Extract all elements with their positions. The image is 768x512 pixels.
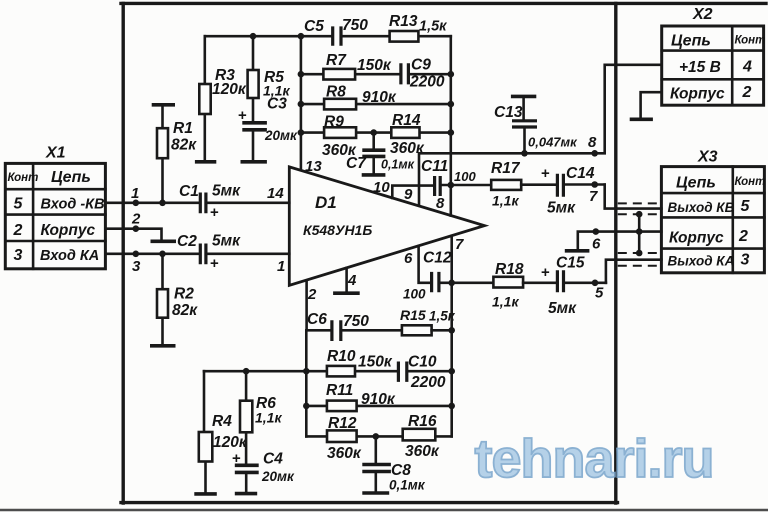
svg-text:R4: R4 — [212, 413, 232, 430]
svg-text:1,1к: 1,1к — [255, 410, 282, 426]
resistor R12 row wire — [306, 435, 451, 438]
watermark tehnari.ru — [474, 429, 713, 489]
node wire R4 R6 R10 row — [204, 370, 452, 373]
pin 2 wire — [307, 281, 331, 331]
capacitor C10 — [398, 354, 445, 392]
resistor R14 — [390, 112, 425, 157]
resistor R16 — [403, 413, 440, 460]
svg-text:C3: C3 — [267, 96, 287, 113]
svg-text:R7: R7 — [326, 52, 347, 69]
svg-text:1: 1 — [277, 258, 285, 275]
svg-text:14: 14 — [267, 185, 284, 202]
ground C8 bottom — [362, 491, 389, 495]
svg-text:2: 2 — [131, 211, 141, 228]
svg-text:C14: C14 — [566, 165, 595, 182]
svg-text:+15 В: +15 В — [679, 59, 721, 76]
svg-text:750: 750 — [342, 17, 368, 34]
svg-text:360к: 360к — [327, 445, 362, 462]
svg-text:X2: X2 — [692, 6, 713, 23]
resistor R8 row wire — [301, 103, 451, 106]
svg-text:2200: 2200 — [410, 374, 446, 391]
svg-text:13: 13 — [305, 158, 322, 175]
svg-text:Вход -КВ: Вход -КВ — [41, 197, 105, 213]
svg-text:Выход КВ: Выход КВ — [668, 200, 735, 215]
svg-text:4: 4 — [347, 272, 357, 289]
capacitor C12 — [403, 250, 493, 302]
resistor R1 — [157, 106, 168, 200]
resistor R2 — [157, 254, 168, 344]
svg-text:82к: 82к — [172, 302, 198, 319]
capacitor C11 — [421, 158, 491, 196]
resistor R12 — [327, 415, 362, 462]
wire input Корпус row — [105, 229, 161, 240]
svg-text:1,5к: 1,5к — [419, 19, 447, 35]
svg-text:0,047мк: 0,047мк — [528, 135, 578, 150]
right bottom bus pin 7 — [450, 236, 453, 437]
resistor R18 — [492, 261, 556, 310]
svg-text:1: 1 — [131, 185, 139, 202]
svg-text:+: + — [232, 450, 241, 467]
svg-text:C7: C7 — [346, 155, 367, 172]
svg-text:82к: 82к — [171, 137, 197, 154]
capacitor C4 — [235, 465, 259, 491]
ground R4 bottom — [194, 492, 217, 496]
svg-text:C13: C13 — [494, 104, 523, 121]
pin 10 wire — [392, 186, 433, 198]
svg-text:1,1к: 1,1к — [492, 294, 519, 310]
main circuit boundary right edge — [614, 3, 617, 503]
resistor R7 row wire — [301, 73, 451, 76]
svg-text:R9: R9 — [324, 114, 344, 131]
svg-text:R17: R17 — [491, 160, 521, 177]
svg-text:C8: C8 — [391, 462, 411, 479]
svg-text:20мк: 20мк — [264, 128, 298, 143]
wire input Вход-КВ row — [105, 202, 198, 205]
shielded cable КВ dashes — [618, 203, 660, 214]
svg-text:Корпус: Корпус — [670, 86, 725, 103]
svg-text:C2: C2 — [177, 233, 197, 250]
svg-text:2: 2 — [13, 222, 23, 239]
svg-text:tehnari.ru: tehnari.ru — [474, 429, 713, 489]
svg-text:6: 6 — [404, 250, 413, 267]
contact 5 node — [592, 280, 599, 287]
svg-text:+: + — [541, 165, 550, 182]
svg-text:R13: R13 — [389, 13, 418, 30]
svg-text:Цепь: Цепь — [676, 175, 716, 192]
svg-text:C12: C12 — [423, 250, 452, 267]
resistor R10 — [327, 348, 393, 376]
svg-text:+: + — [541, 264, 550, 281]
resistor R6 — [240, 371, 282, 463]
ground R2 bottom — [150, 344, 176, 348]
svg-text:C4: C4 — [263, 451, 283, 468]
svg-text:360к: 360к — [405, 443, 440, 460]
svg-text:X3: X3 — [697, 149, 718, 166]
svg-text:R10: R10 — [327, 348, 356, 365]
svg-text:150к: 150к — [357, 57, 392, 74]
svg-text:120к: 120к — [212, 81, 247, 98]
svg-text:Корпус: Корпус — [41, 222, 96, 239]
svg-text:Вход КА: Вход КА — [40, 248, 99, 264]
svg-text:C9: C9 — [411, 57, 431, 74]
svg-text:К548УН1Б: К548УН1Б — [303, 222, 372, 238]
capacitor C2 — [177, 233, 289, 273]
right feedback bus pin 8 — [449, 36, 452, 215]
svg-text:0,1мк: 0,1мк — [381, 158, 415, 172]
main circuit boundary top edge — [121, 2, 766, 5]
capacitor C5 — [304, 17, 368, 46]
resistor R7 — [323, 52, 391, 80]
junction C13 bottom — [521, 150, 528, 157]
svg-text:9: 9 — [404, 186, 413, 203]
svg-text:D1: D1 — [315, 193, 337, 212]
svg-text:10: 10 — [373, 179, 390, 196]
capacitor C3 — [242, 123, 267, 161]
wire output КВ to X3 — [605, 185, 662, 209]
svg-text:C10: C10 — [408, 354, 437, 371]
capacitor C8 — [362, 436, 391, 491]
contact 8 node — [591, 150, 598, 157]
wire input Вход КА row — [105, 253, 198, 256]
resistor R11 — [326, 382, 396, 411]
svg-text:R8: R8 — [326, 84, 346, 101]
svg-text:150к: 150к — [358, 354, 393, 371]
chassis bar output — [565, 249, 590, 253]
resistor R9 — [322, 114, 357, 160]
svg-text:+: + — [238, 107, 247, 124]
node wire pin13 feedback row C5 — [205, 35, 451, 38]
resistor R11 row wire — [306, 405, 451, 408]
capacitor C15 — [541, 255, 606, 318]
svg-text:5: 5 — [741, 198, 751, 215]
resistor R17 — [491, 160, 556, 209]
ground R1 top — [152, 103, 175, 107]
capacitor C1 — [179, 183, 289, 222]
svg-text:120к: 120к — [213, 434, 248, 451]
shielded cable КА dashes — [618, 253, 660, 266]
resistor R9 row wire — [301, 131, 451, 134]
svg-text:R1: R1 — [173, 120, 193, 137]
left feedback bus pin 13 — [300, 36, 303, 170]
svg-text:5: 5 — [595, 285, 604, 302]
svg-text:5мк: 5мк — [212, 233, 241, 250]
capacitor C6 — [307, 311, 402, 341]
svg-text:7: 7 — [589, 188, 598, 205]
svg-text:Выход КА: Выход КА — [668, 254, 735, 269]
svg-text:6: 6 — [592, 236, 601, 253]
svg-text:910к: 910к — [362, 89, 397, 106]
svg-text:5мк: 5мк — [547, 200, 576, 217]
svg-text:8: 8 — [588, 134, 597, 151]
op-amp D1 К548УН1Б — [289, 167, 484, 286]
svg-text:100: 100 — [454, 169, 476, 184]
svg-text:2: 2 — [742, 84, 752, 101]
svg-text:R2: R2 — [174, 286, 194, 303]
svg-text:0,1мк: 0,1мк — [389, 478, 426, 493]
svg-text:750: 750 — [343, 313, 369, 330]
svg-text:R18: R18 — [495, 261, 524, 278]
svg-text:5мк: 5мк — [212, 183, 241, 200]
contact 7 node — [591, 181, 598, 188]
capacitor C13 — [494, 96, 578, 153]
resistor R4 — [199, 371, 213, 491]
svg-text:R14: R14 — [392, 112, 421, 129]
pin 4 stub — [345, 268, 348, 291]
svg-text:20мк: 20мк — [261, 469, 295, 484]
svg-text:1,1к: 1,1к — [492, 193, 519, 209]
capacitor C7 — [362, 133, 385, 173]
svg-text:5: 5 — [14, 196, 24, 213]
resistor R3 — [199, 36, 210, 161]
svg-text:2: 2 — [307, 286, 317, 303]
shield tie vertical — [638, 214, 641, 253]
svg-text:3: 3 — [132, 258, 141, 275]
svg-text:Цепь: Цепь — [51, 169, 91, 186]
svg-text:+: + — [210, 204, 219, 221]
junction C8 top — [373, 433, 380, 440]
svg-text:Корпус: Корпус — [669, 230, 724, 247]
image bottom border — [0, 509, 768, 512]
svg-text:2200: 2200 — [409, 74, 445, 91]
junction R1 bottom — [159, 200, 166, 207]
junction R5 top — [250, 33, 257, 40]
svg-text:C11: C11 — [421, 158, 448, 175]
ground C3 bottom — [241, 160, 267, 164]
main circuit boundary bottom edge — [121, 501, 618, 504]
ground C7 bottom — [362, 173, 386, 177]
pin 8 rail wire — [419, 65, 662, 206]
svg-text:R12: R12 — [328, 415, 357, 432]
left bottom bus — [305, 330, 308, 436]
svg-text:3: 3 — [14, 247, 23, 264]
connector table X1 — [5, 145, 105, 269]
svg-text:C1: C1 — [179, 183, 199, 200]
junction C7 top — [370, 129, 377, 136]
svg-text:910к: 910к — [361, 391, 396, 408]
chassis bar input — [151, 240, 177, 244]
svg-text:C6: C6 — [307, 311, 327, 328]
ground X2 — [630, 92, 662, 119]
svg-text:Конт: Конт — [8, 172, 39, 184]
resistor R8 — [324, 84, 397, 110]
svg-text:100: 100 — [403, 287, 426, 302]
resistor R5 — [248, 36, 291, 121]
contact 6 node — [593, 228, 600, 235]
svg-text:R15: R15 — [400, 307, 426, 323]
node 2 — [133, 225, 140, 232]
capacitor C14 — [541, 165, 605, 217]
svg-text:R11: R11 — [326, 382, 353, 399]
wire output КА to X3 — [606, 260, 662, 283]
pin 6 wire — [419, 246, 430, 283]
connector table X3 — [661, 149, 765, 273]
wire Корпус output row — [578, 232, 662, 249]
svg-text:Конт: Конт — [735, 35, 766, 47]
svg-text:Конт: Конт — [735, 176, 766, 188]
node 1 — [133, 200, 140, 207]
svg-text:+: + — [210, 255, 219, 272]
svg-text:8: 8 — [436, 195, 445, 212]
svg-text:4: 4 — [742, 59, 752, 76]
svg-text:X1: X1 — [45, 145, 66, 162]
capacitor C9 — [401, 57, 445, 91]
resistor R15 — [400, 307, 456, 335]
ground R3 bottom — [195, 160, 216, 164]
svg-text:C15: C15 — [556, 255, 585, 272]
main circuit boundary left edge — [121, 3, 124, 503]
junction R2 top — [159, 251, 166, 258]
junction R6 top — [243, 368, 250, 375]
svg-text:C5: C5 — [304, 18, 324, 35]
svg-text:5мк: 5мк — [548, 300, 577, 317]
svg-text:7: 7 — [455, 236, 464, 253]
svg-text:Цепь: Цепь — [671, 33, 711, 50]
svg-text:3: 3 — [741, 252, 750, 269]
ground C4 bottom — [235, 492, 257, 496]
connector table X2 — [662, 6, 766, 105]
svg-text:R16: R16 — [408, 413, 437, 430]
node 3 — [133, 251, 140, 258]
resistor R13 — [389, 13, 447, 42]
svg-text:2: 2 — [738, 228, 748, 245]
